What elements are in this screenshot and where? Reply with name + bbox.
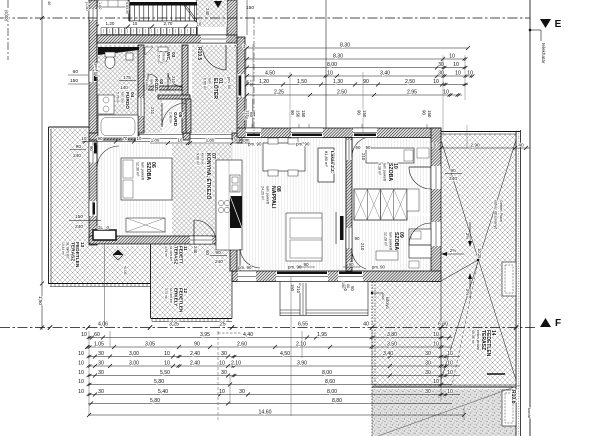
svg-text:30: 30 — [98, 370, 104, 376]
svg-text:30: 30 — [239, 389, 245, 395]
svg-text:3,95: 3,95 — [200, 332, 210, 338]
svg-text:60: 60 — [356, 145, 361, 150]
svg-text:210: 210 — [296, 286, 301, 294]
east wall door rm09 — [431, 222, 441, 246]
bottom dim r6 — [88, 384, 452, 386]
svg-text:10: 10 — [178, 138, 183, 143]
svg-text:10: 10 — [164, 351, 170, 357]
marker E — [540, 19, 551, 28]
north wall window B — [353, 128, 377, 138]
svg-text:3,90: 3,90 — [297, 361, 307, 367]
svg-text:4,06: 4,06 — [98, 322, 108, 328]
svg-text:6,66 m²: 6,66 m² — [202, 78, 206, 91]
svg-text:30: 30 — [425, 370, 431, 376]
svg-text:3,40: 3,40 — [383, 351, 393, 357]
svg-text:8,00: 8,00 — [327, 389, 337, 395]
south wall nappali door — [238, 271, 256, 282]
svg-text:90: 90 — [357, 110, 362, 115]
svg-text:240: 240 — [449, 176, 457, 182]
svg-text:10,25: 10,25 — [477, 248, 482, 259]
svg-text:10: 10 — [447, 370, 453, 376]
svg-text:10: 10 — [78, 379, 84, 385]
svg-text:12,28 m²: 12,28 m² — [383, 232, 387, 247]
svg-text:2,95: 2,95 — [407, 90, 417, 96]
svg-text:1,60: 1,60 — [98, 2, 102, 9]
svg-text:4,91 m²: 4,91 m² — [164, 246, 168, 257]
svg-text:90: 90 — [215, 250, 221, 256]
svg-text:10: 10 — [433, 332, 439, 338]
west wall — [89, 0, 97, 245]
stair tread square row — [101, 28, 106, 35]
svg-text:lam.parkett: lam.parkett — [389, 232, 393, 250]
upper unit kitchen counter — [98, 0, 128, 7]
svg-text:kifolyó: kifolyó — [385, 297, 390, 310]
svg-text:240: 240 — [215, 259, 223, 265]
entry door opening — [201, 35, 226, 43]
svg-text:lam.: lam. — [208, 78, 212, 85]
bottom dim r2 — [88, 346, 452, 348]
svg-text:10: 10 — [164, 361, 170, 367]
svg-text:(6,40): (6,40) — [4, 10, 9, 22]
svg-text:korlát: korlát — [527, 408, 532, 419]
svg-text:1,50 m²: 1,50 m² — [157, 52, 161, 64]
svg-text:90: 90 — [76, 144, 82, 150]
svg-text:ker.bur: ker.bur — [201, 153, 205, 165]
dim line y141 szoba — [82, 141, 150, 143]
svg-text:40: 40 — [518, 143, 524, 149]
svg-text:ker. bur: ker. bur — [120, 92, 124, 104]
svg-text:4,40: 4,40 — [243, 332, 253, 338]
east wall left wing — [237, 37, 245, 143]
svg-text:30: 30 — [98, 351, 104, 357]
svg-text:10: 10 — [433, 379, 439, 385]
west wall window 0 — [89, 9, 97, 20]
section line F — [0, 327, 536, 329]
svg-text:10: 10 — [433, 342, 439, 348]
svg-text:telekhatár: telekhatár — [541, 43, 546, 64]
staircase treads — [129, 6, 131, 22]
grate lower — [502, 390, 516, 426]
door arc room10 — [409, 166, 431, 168]
bottom dim r4 — [88, 365, 460, 367]
svg-text:10: 10 — [447, 361, 453, 367]
svg-text:16: 16 — [197, 22, 202, 27]
door arc konyha south — [193, 220, 195, 244]
grate upper — [502, 262, 516, 296]
svg-text:,25: ,25 — [218, 322, 225, 328]
svg-text:60: 60 — [346, 284, 350, 288]
svg-text:sz.csm.ker: sz.csm.ker — [169, 246, 173, 262]
door arc room09 — [409, 244, 431, 246]
door arc nappali sw — [239, 249, 241, 271]
svg-text:SZOBA: SZOBA — [393, 232, 399, 250]
bottom dim r8 — [88, 403, 452, 405]
door arc gard — [161, 103, 163, 127]
bed szoba06 — [121, 158, 172, 200]
toilet furdo — [105, 56, 115, 69]
svg-text:lam.parkett: lam.parkett — [266, 186, 270, 204]
svg-text:1,20: 1,20 — [106, 21, 115, 26]
svg-text:10: 10 — [453, 62, 459, 68]
svg-text:10: 10 — [467, 71, 473, 77]
svg-text:2,10: 2,10 — [296, 342, 306, 348]
svg-text:3,50: 3,50 — [387, 342, 397, 348]
shower screen black wedge — [98, 47, 139, 55]
window C leader band — [246, 99, 248, 127]
svg-text:5,80: 5,80 — [154, 379, 164, 385]
marker F — [540, 318, 551, 327]
svg-text:14,60: 14,60 — [259, 410, 272, 416]
svg-text:210: 210 — [360, 243, 365, 251]
south steps slab — [280, 282, 368, 316]
svg-text:SZOBA: SZOBA — [387, 163, 393, 181]
upper unit walls — [128, 0, 130, 21]
svg-text:30: 30 — [425, 351, 431, 357]
south wall slider — [276, 271, 328, 282]
svg-text:24,20 m²: 24,20 m² — [260, 186, 264, 201]
dim chain 1,20 row — [246, 84, 468, 86]
black marker top — [214, 1, 222, 8]
dim chain 8,00 — [246, 67, 466, 69]
bathtub — [98, 115, 138, 138]
dim chain 2,25 row — [246, 94, 462, 96]
left vertical grid — [41, 0, 43, 330]
svg-text:8,00: 8,00 — [322, 370, 332, 376]
svg-text:30: 30 — [234, 138, 239, 143]
svg-text:5,84 m: 5,84 m — [125, 2, 129, 14]
svg-text:3,00: 3,00 — [129, 351, 139, 357]
svg-text:30: 30 — [432, 143, 438, 149]
fridge black — [230, 196, 242, 228]
svg-text:F: F — [555, 318, 561, 329]
svg-text:(1,60: (1,60 — [85, 2, 89, 11]
terrace 13 edge — [48, 127, 50, 284]
property line telekhatar — [529, 0, 531, 436]
svg-text:6,55: 6,55 — [298, 322, 308, 328]
slope arrows — [469, 222, 471, 244]
svg-text:150: 150 — [341, 282, 345, 288]
svg-text:240: 240 — [73, 153, 81, 159]
terrace 11-12 floor — [151, 244, 232, 318]
svg-text:15: 15 — [133, 21, 138, 26]
svg-text:KONYHA, ÉTKEZŐ: KONYHA, ÉTKEZŐ — [205, 153, 213, 199]
room 03 WC floor — [144, 45, 182, 90]
bench szoba06 — [126, 218, 165, 232]
svg-text:5,40: 5,40 — [158, 389, 168, 395]
interior wall furdo/wc — [138, 45, 144, 133]
svg-text:2%: 2% — [465, 289, 470, 296]
svg-text:2,50: 2,50 — [405, 79, 415, 85]
svg-text:210: 210 — [361, 153, 366, 161]
room 10 SZOBA floor — [352, 138, 431, 214]
wall nappali/szoba — [346, 138, 352, 272]
svg-text:90: 90 — [422, 110, 427, 115]
svg-text:10: 10 — [137, 136, 142, 141]
svg-text:10: 10 — [82, 136, 87, 141]
svg-text:10,44 m²: 10,44 m² — [61, 242, 65, 256]
svg-text:150: 150 — [70, 78, 78, 84]
wall band y133 bath block bottom — [89, 133, 139, 140]
svg-text:2,50: 2,50 — [337, 90, 347, 96]
svg-text:2,70: 2,70 — [164, 21, 173, 26]
terrace 14 slope lines — [441, 140, 516, 380]
dim chain 8,30 b — [246, 58, 466, 60]
svg-text:30: 30 — [425, 361, 431, 367]
svg-text:9,18 m²: 9,18 m² — [377, 163, 381, 176]
svg-text:4,50: 4,50 — [280, 351, 290, 357]
svg-text:90: 90 — [363, 79, 369, 85]
kifolyo label — [371, 292, 373, 294]
center vertical grid — [325, 0, 327, 128]
svg-text:pm. 90: pm. 90 — [238, 265, 252, 270]
svg-text:2,40: 2,40 — [190, 351, 200, 357]
extension verticals — [245, 44, 247, 100]
door arc szoba06 — [97, 166, 119, 168]
sw corner detail — [93, 230, 116, 240]
svg-text:elővíz öbszrelnyő: elővíz öbszrelnyő — [494, 200, 498, 229]
bottom dim r7 — [88, 394, 460, 396]
east wall right wing — [431, 128, 441, 282]
svg-text:lam.: lam. — [149, 79, 153, 85]
svg-text:2%: 2% — [465, 233, 470, 240]
svg-text:5,80: 5,80 — [150, 398, 160, 404]
north wall window C — [246, 128, 261, 138]
svg-text:90: 90 — [348, 262, 354, 267]
svg-text:30: 30 — [98, 361, 104, 367]
gravel paving — [372, 389, 516, 436]
svg-text:10: 10 — [327, 71, 333, 77]
room 04 FURDO floor — [97, 45, 138, 140]
svg-text:150: 150 — [296, 110, 301, 118]
svg-text:9,60 m²: 9,60 m² — [195, 153, 199, 166]
west wall nappali lower — [230, 244, 237, 271]
svg-text:+0,05: +0,05 — [123, 265, 127, 275]
svg-text:240: 240 — [205, 8, 210, 16]
svg-text:2%: 2% — [450, 248, 457, 253]
door arc room10 west — [352, 138, 366, 158]
svg-text:10: 10 — [443, 90, 449, 96]
svg-text:40: 40 — [363, 322, 369, 328]
svg-text:10: 10 — [219, 389, 225, 395]
svg-text:90: 90 — [303, 262, 309, 267]
south wall door opening — [190, 236, 212, 244]
svg-text:Gebert Piave: Gebert Piave — [499, 200, 503, 222]
svg-text:1,30: 1,30 — [333, 79, 343, 85]
svg-text:90: 90 — [205, 250, 210, 255]
svg-text:81,80 m²: 81,80 m² — [324, 151, 329, 167]
room 08 NAPPALI floor — [232, 138, 346, 272]
svg-text:10: 10 — [219, 361, 225, 367]
svg-text:4,04 m²: 4,04 m² — [145, 79, 149, 91]
svg-text:10: 10 — [78, 389, 84, 395]
dim chain 8,30 a — [246, 47, 468, 49]
svg-text:10: 10 — [78, 370, 84, 376]
svg-text:40,36 m²: 40,36 m² — [471, 330, 475, 345]
interior wall wc/eloter — [182, 45, 188, 133]
svg-text:10: 10 — [455, 71, 461, 77]
svg-text:R10.b: R10.b — [510, 390, 516, 404]
svg-text:70: 70 — [123, 136, 128, 141]
north wall window A — [291, 128, 323, 138]
dim line y141 konyha — [150, 142, 250, 144]
gravel diagonal — [378, 385, 520, 436]
svg-text:150: 150 — [244, 112, 249, 120]
svg-text:1,95: 1,95 — [317, 332, 327, 338]
svg-text:60: 60 — [249, 112, 254, 117]
svg-text:1,05: 1,05 — [94, 342, 104, 348]
svg-text:5,76 m²: 5,76 m² — [116, 92, 120, 104]
terrace 13 floor — [50, 128, 150, 283]
svg-text:lam.parkett: lam.parkett — [383, 163, 387, 181]
west wall window 2 — [89, 201, 97, 216]
svg-text:10: 10 — [81, 332, 87, 338]
svg-text:175: 175 — [123, 75, 131, 80]
desk rm09 — [376, 251, 398, 260]
svg-text:3,25: 3,25 — [169, 322, 179, 328]
svg-text:E: E — [555, 19, 562, 30]
door arc wc — [148, 74, 160, 86]
svg-text:150: 150 — [75, 214, 83, 220]
wall gard/eloter — [186, 99, 191, 133]
door arc kozl — [167, 73, 169, 90]
svg-text:lam.parkett: lam.parkett — [141, 162, 145, 180]
svg-text:60: 60 — [73, 69, 79, 75]
svg-text:140: 140 — [120, 85, 128, 90]
svg-text:NAPPALI: NAPPALI — [270, 186, 276, 209]
telekhatar leader — [529, 29, 532, 32]
north wall right wing — [237, 128, 441, 138]
dim 2,90 40 line — [441, 147, 530, 149]
room 06 SZOBA floor — [97, 140, 166, 236]
far left dashdot — [7, 0, 9, 60]
west wall window 1 — [89, 71, 97, 82]
svg-text:pm. 90: pm. 90 — [94, 64, 99, 77]
svg-text:210: 210 — [150, 107, 155, 115]
svg-text:1,50: 1,50 — [38, 296, 43, 305]
svg-text:150: 150 — [301, 110, 306, 118]
wc corner basin — [145, 47, 153, 55]
svg-text:2,40: 2,40 — [190, 361, 200, 367]
svg-text:8,00: 8,00 — [327, 62, 337, 68]
svg-text:beton járólap: beton járólap — [476, 330, 480, 350]
dining table — [263, 143, 305, 171]
svg-text:3,00: 3,00 — [129, 361, 139, 367]
svg-text:3,40: 3,40 — [380, 71, 390, 77]
svg-text:90: 90 — [194, 342, 200, 348]
svg-text:3,80: 3,80 — [387, 332, 397, 338]
R10.b bold line — [487, 373, 505, 375]
svg-text:90: 90 — [450, 168, 456, 174]
svg-text:30: 30 — [221, 351, 227, 357]
svg-text:1,80: 1,80 — [206, 138, 215, 143]
svg-text:2,25: 2,25 — [274, 90, 284, 96]
bottom extension verticals — [88, 331, 90, 416]
svg-text:30: 30 — [221, 370, 227, 376]
dim chain 4,50 3,40 — [246, 75, 472, 77]
svg-text:90: 90 — [366, 145, 371, 150]
sofa — [286, 213, 322, 261]
svg-text:10: 10 — [449, 54, 455, 60]
room 02 KOZL floor — [144, 90, 182, 133]
svg-text:10: 10 — [433, 79, 439, 85]
door arc entry — [225, 45, 227, 70]
wall wc bottom — [144, 86, 182, 90]
bottom dim r9 — [88, 414, 464, 416]
svg-text:6,60: 6,60 — [438, 322, 448, 328]
south wall right wing — [232, 271, 441, 282]
svg-text:8,80: 8,80 — [332, 398, 342, 404]
wall gard top — [158, 95, 190, 99]
tv black bar — [340, 216, 344, 240]
bed room09 — [409, 229, 431, 258]
svg-text:150: 150 — [290, 284, 295, 292]
svg-text:2,10: 2,10 — [231, 361, 241, 367]
svg-text:60: 60 — [94, 332, 100, 338]
svg-text:12,30 m²: 12,30 m² — [135, 162, 139, 177]
room 07 KONYHA floor — [172, 144, 232, 236]
svg-text:1,50: 1,50 — [297, 79, 307, 85]
kitchen counter — [216, 160, 242, 250]
svg-text:210: 210 — [171, 76, 176, 84]
svg-text:30: 30 — [425, 389, 431, 395]
svg-text:GL : 0: GL : 0 — [97, 225, 109, 230]
svg-text:10: 10 — [78, 351, 84, 357]
bottom dim r3 — [88, 356, 460, 358]
south wall szoba06/konyha — [89, 236, 237, 244]
wc toilet — [159, 51, 168, 63]
svg-text:150: 150 — [427, 110, 432, 118]
north wall left wing — [97, 35, 237, 43]
door arc room09 west — [352, 249, 366, 269]
x253 extension vertical — [252, 44, 254, 128]
svg-text:10: 10 — [447, 351, 453, 357]
east wall window — [237, 74, 245, 97]
svg-text:pm.: pm. — [243, 138, 250, 143]
svg-text:30: 30 — [98, 389, 104, 395]
svg-text:3,75 m²: 3,75 m² — [164, 288, 168, 299]
svg-text:40: 40 — [47, 1, 51, 5]
kitchen sink — [230, 175, 240, 192]
svg-text:90: 90 — [355, 236, 360, 241]
svg-text:240: 240 — [75, 224, 83, 230]
svg-text:pm. 90: pm. 90 — [296, 142, 310, 147]
svg-text:SZOBA: SZOBA — [145, 162, 151, 180]
bottom dim r1 — [88, 337, 452, 339]
svg-text:R10.5: R10.5 — [196, 47, 202, 61]
svg-text:4,50: 4,50 — [265, 71, 275, 77]
stove circles — [218, 200, 223, 205]
terrace 14 edges — [441, 131, 520, 133]
east wall door rm10 — [431, 166, 441, 189]
svg-text:5,50: 5,50 — [160, 370, 170, 376]
svg-text:8,30: 8,30 — [333, 54, 343, 60]
svg-text:8,60: 8,60 — [325, 379, 335, 385]
svg-text:3,05: 3,05 — [145, 342, 155, 348]
svg-text:cm bur: cm bur — [161, 52, 165, 63]
terrace 14 floor — [372, 134, 516, 387]
svg-text:10: 10 — [447, 389, 453, 395]
svg-text:SL GPL 60°: SL GPL 60° — [66, 242, 70, 260]
room 09 SZOBA floor — [352, 216, 431, 271]
svg-text:sz.csm.ker: sz.csm.ker — [169, 288, 173, 304]
room 01 ELOTER floor — [192, 45, 237, 133]
svg-text:240: 240 — [193, 246, 198, 254]
upper eloter floor — [197, 0, 227, 27]
svg-text:1,20: 1,20 — [259, 79, 269, 85]
bottom dim r5 — [88, 375, 460, 377]
dashed vertical x254 — [253, 18, 255, 136]
west wall door szoba06 — [89, 142, 97, 163]
